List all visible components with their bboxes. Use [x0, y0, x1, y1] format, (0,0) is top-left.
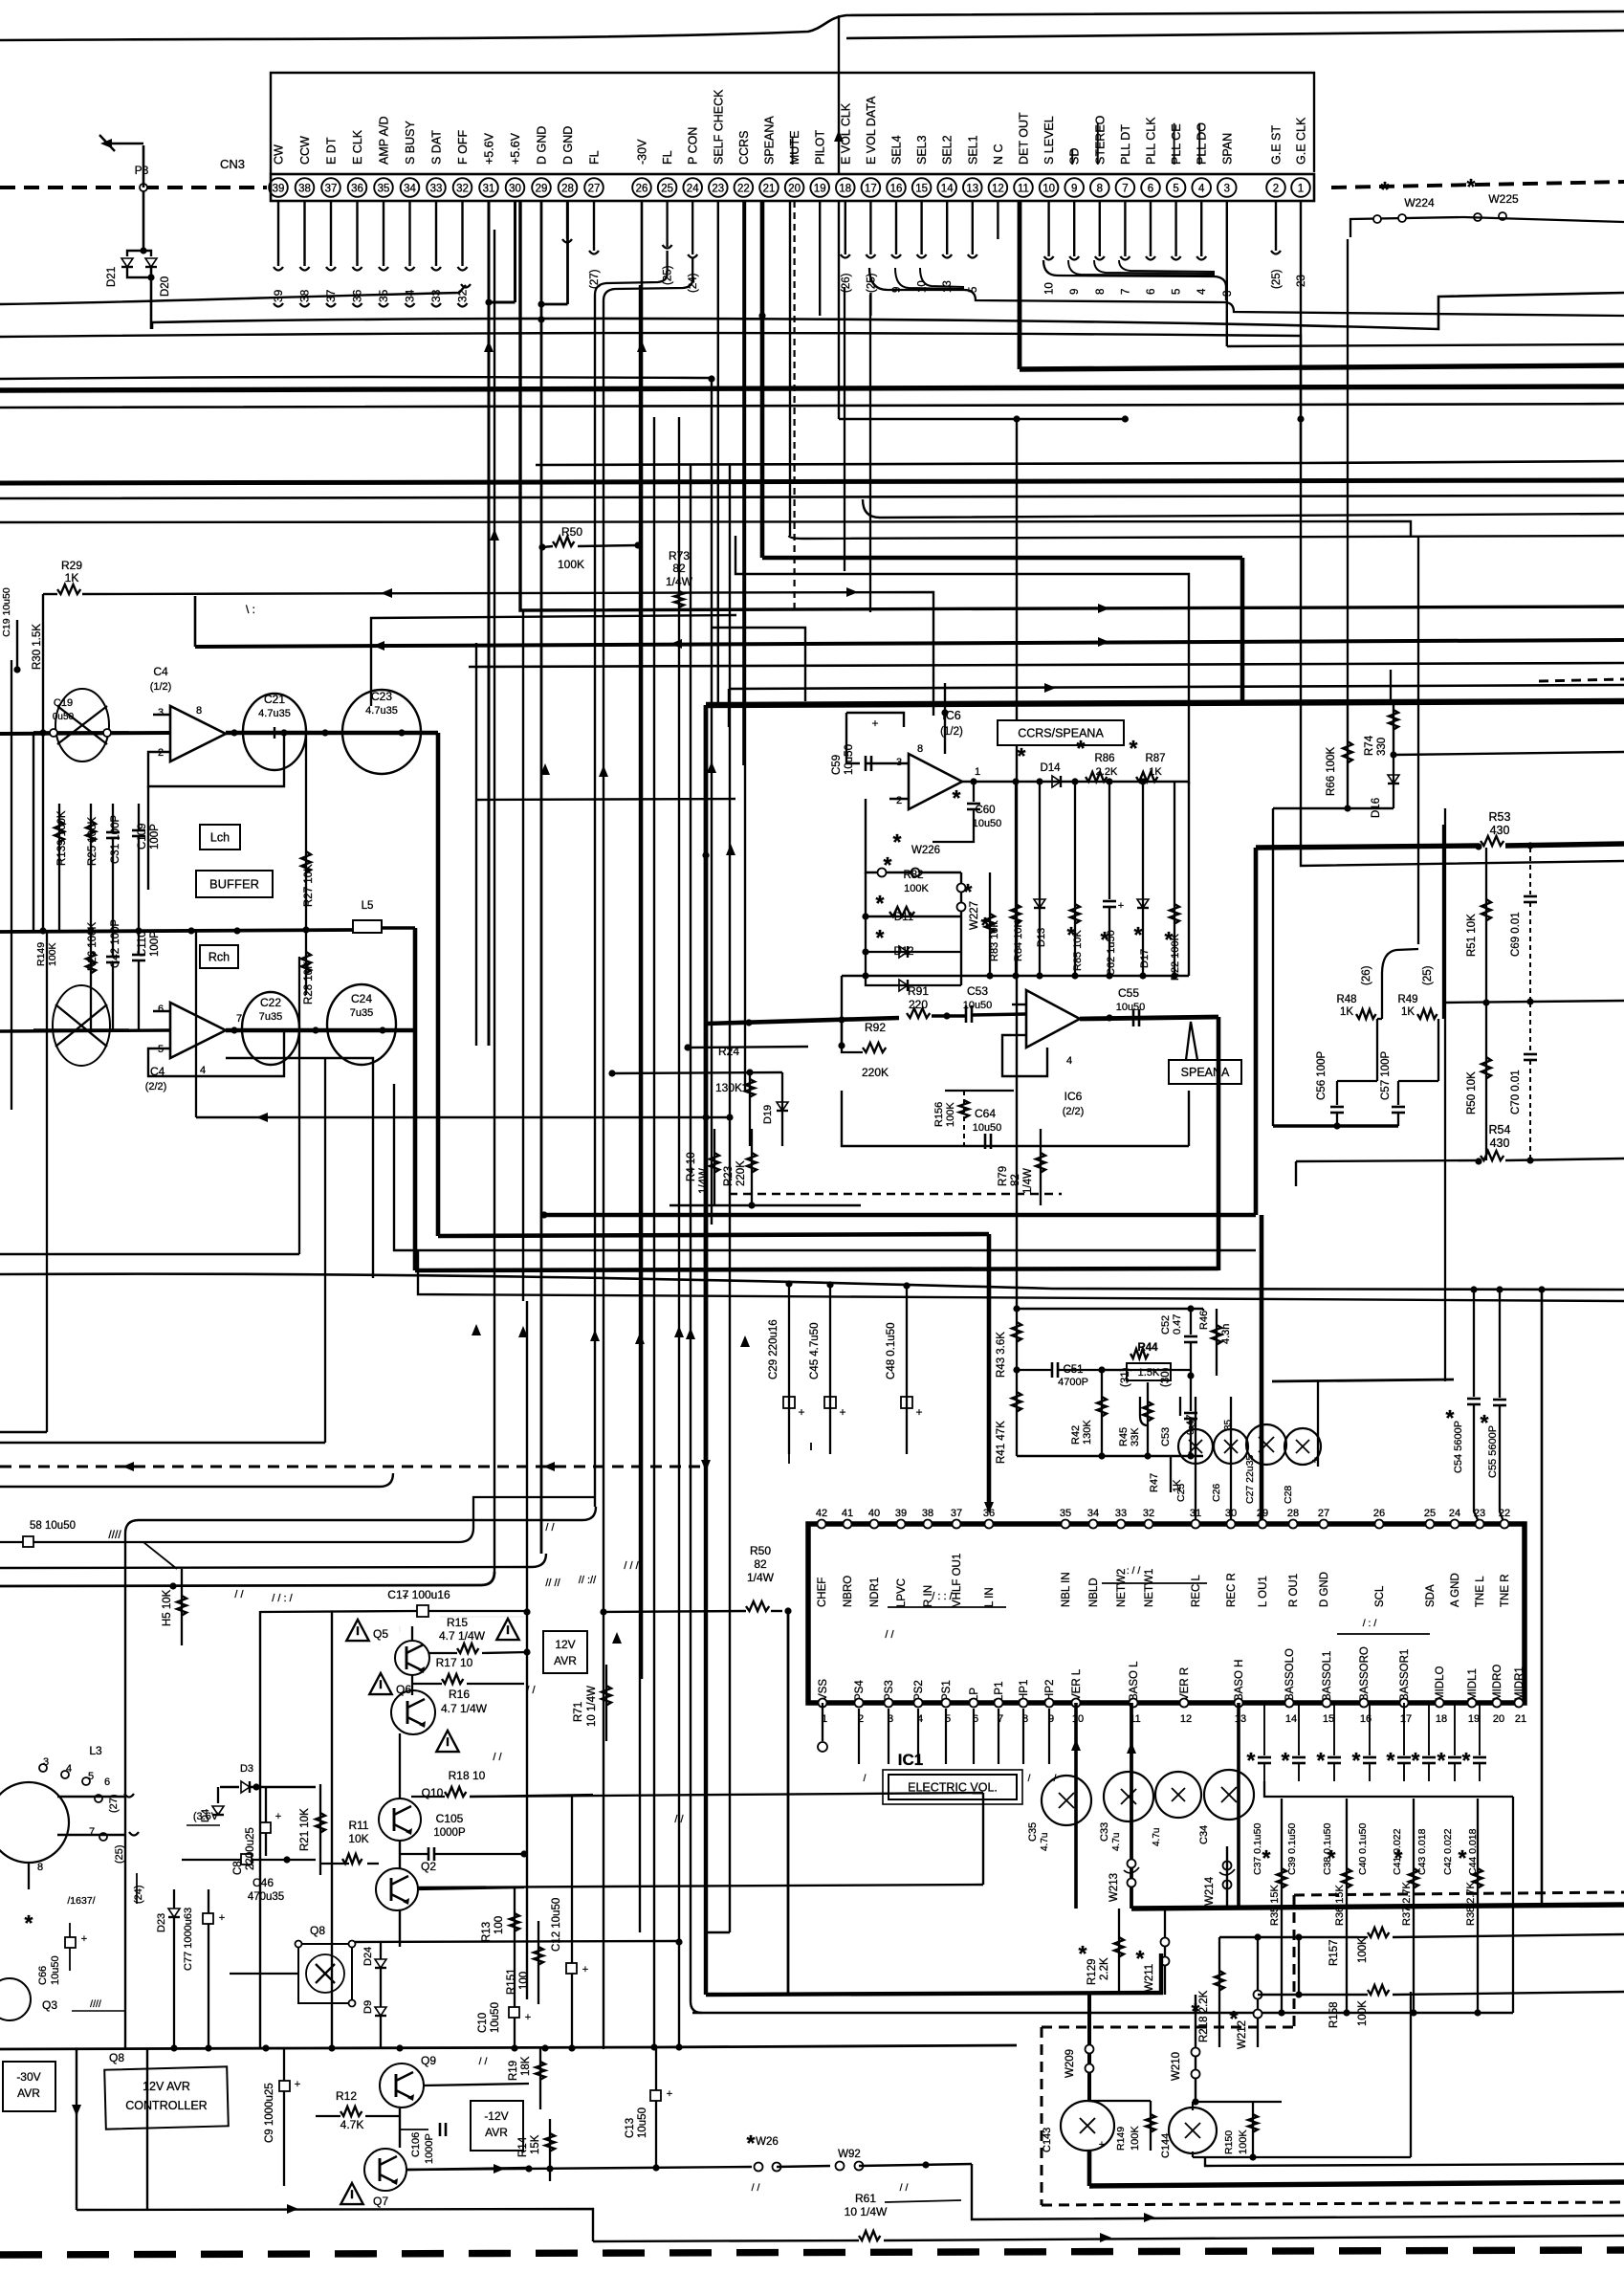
svg-text:-30V: -30V: [636, 139, 649, 165]
svg-text:(1/2): (1/2): [940, 726, 963, 738]
capacitor C4 bypass labels: [1, 587, 43, 673]
svg-text:MIDR1: MIDR1: [1514, 1666, 1525, 1701]
wire pin 6 stub: [1146, 201, 1157, 295]
pin 4 PLL DO: [1192, 122, 1211, 197]
label -12V AVR: [471, 2101, 523, 2151]
svg-text:BASO L: BASO L: [1129, 1661, 1140, 1701]
svg-text:AVR: AVR: [485, 2126, 508, 2139]
svg-text:*: *: [1018, 743, 1026, 768]
svg-text:(31): (31): [1120, 1367, 1131, 1387]
diode D16: [1371, 755, 1399, 818]
svg-text:10K: 10K: [348, 1832, 368, 1845]
wire pin 15 stub: [917, 201, 929, 293]
svg-text:4700P: 4700P: [1058, 1377, 1088, 1388]
wire left edge vertical: [11, 660, 12, 1110]
pin 27 FL: [584, 150, 604, 196]
wire: [1445, 1001, 1624, 1003]
pin 26 -30V: [632, 139, 651, 197]
capacitor C52 0.47: [1160, 1305, 1197, 1379]
wire vertical: [729, 465, 731, 1932]
svg-text:P CON: P CON: [687, 127, 700, 165]
capacitor C51 4700P: [1017, 1362, 1124, 1388]
capacitor C70 0.01: [1510, 1003, 1537, 1160]
capacitor C45 4.7u50: [809, 1281, 846, 1454]
svg-text:100K: 100K: [945, 1102, 956, 1127]
svg-text:82: 82: [754, 1557, 767, 1571]
svg-text:BASSOLO: BASSOLO: [1284, 1648, 1296, 1701]
svg-text:Q10: Q10: [422, 1786, 444, 1799]
IC1 pin 37 VHLF OU1: [951, 1508, 963, 1607]
svg-text:37: 37: [951, 1508, 962, 1519]
svg-text:4.7u35: 4.7u35: [365, 705, 398, 717]
wire CCRS block bottom: [842, 1091, 1189, 1146]
svg-text:S BUSY: S BUSY: [404, 120, 417, 165]
capacitor C105 1000P: [400, 1812, 528, 1861]
pin 37 E DT: [321, 137, 340, 197]
svg-text:36: 36: [983, 1508, 995, 1519]
svg-text:R50: R50: [750, 1544, 771, 1557]
svg-text:Rch: Rch: [208, 951, 230, 964]
svg-text:PLL DO: PLL DO: [1196, 122, 1209, 165]
svg-text:W213: W213: [1108, 1873, 1120, 1902]
resistor R12 4.7K: [316, 2089, 400, 2131]
svg-text:LPVC: LPVC: [896, 1578, 908, 1607]
transistor Q9: [380, 2054, 529, 2107]
svg-text:BASO H: BASO H: [1234, 1660, 1245, 1701]
svg-text:/: /: [864, 1774, 867, 1784]
wire thick vertical: [1240, 558, 1245, 705]
svg-text:MIDLO: MIDLO: [1435, 1666, 1446, 1701]
svg-text:13: 13: [1235, 1713, 1246, 1725]
IC1 pin 5 PS1: [941, 1680, 954, 1784]
svg-text:470u35: 470u35: [248, 1891, 284, 1903]
svg-text:4: 4: [1066, 1055, 1072, 1067]
svg-text:SCL: SCL: [1374, 1585, 1386, 1607]
svg-text:C52: C52: [1160, 1315, 1172, 1335]
svg-text:10 1/4W: 10 1/4W: [586, 1686, 598, 1727]
jumper W92: [836, 2149, 973, 2171]
wire pin 7 stub: [1120, 201, 1131, 295]
svg-text:16: 16: [890, 184, 903, 195]
svg-text:W212: W212: [1237, 2020, 1248, 2049]
svg-text:C39 0.1u50: C39 0.1u50: [1286, 1823, 1298, 1875]
capacitor C58 10u50: [0, 1497, 596, 1547]
capacitor C31 100P: [106, 804, 121, 931]
svg-text:C46: C46: [252, 1876, 274, 1889]
diode D4: [200, 1787, 224, 1822]
svg-text:100K: 100K: [1238, 2130, 1249, 2154]
svg-text:R49: R49: [1397, 994, 1417, 1005]
svg-text:R79: R79: [998, 1166, 1009, 1186]
svg-text:W211: W211: [1144, 1964, 1155, 1992]
wire route: [0, 1572, 494, 1590]
wire pin 4 stub: [1196, 201, 1208, 295]
svg-text:1/4W: 1/4W: [747, 1571, 775, 1584]
svg-text:7: 7: [1122, 184, 1128, 195]
svg-text:28: 28: [561, 184, 574, 195]
resistor R150 100K: [1193, 1992, 1411, 2161]
svg-text:15: 15: [1323, 1713, 1334, 1725]
svg-text:PS4: PS4: [854, 1680, 866, 1701]
svg-text:TNE R: TNE R: [1500, 1575, 1511, 1608]
svg-text:19: 19: [1468, 1713, 1480, 1725]
IC1 pin 27 D GND: [1318, 1508, 1330, 1607]
svg-text:C105: C105: [436, 1812, 464, 1825]
svg-text:31: 31: [1190, 1508, 1201, 1519]
svg-text:18: 18: [1436, 1713, 1447, 1725]
svg-text:30: 30: [1225, 1508, 1237, 1519]
resistor R139 100K: [55, 804, 68, 931]
svg-text:VER R: VER R: [1179, 1667, 1191, 1701]
svg-text:34: 34: [404, 289, 417, 302]
transistor Q6: [369, 1673, 487, 1734]
svg-text:C28: C28: [1283, 1486, 1294, 1504]
svg-text:R54: R54: [1489, 1123, 1511, 1136]
svg-text:8: 8: [196, 705, 202, 717]
wire: [1016, 419, 1018, 1309]
label (26): [1361, 949, 1418, 1019]
wire riser: [194, 596, 197, 647]
IC1 pin 14 BASSOLO: [1284, 1648, 1297, 1725]
label -30V AVR: [3, 2062, 55, 2111]
svg-text:C69 0.01: C69 0.01: [1510, 912, 1522, 957]
capacitor C29 220u16: [768, 1280, 805, 1454]
svg-text:CONTROLLER: CONTROLLER: [125, 2099, 207, 2112]
wire: [394, 1084, 1256, 1250]
svg-text:D14: D14: [1040, 762, 1061, 774]
wire vertical: [594, 295, 596, 1507]
svg-text:CCRS: CCRS: [737, 131, 751, 165]
svg-text:1000P: 1000P: [424, 2133, 435, 2164]
transistor Q2L: [33, 985, 129, 1066]
svg-text:4.7K: 4.7K: [340, 2118, 364, 2131]
wire vertical: [566, 201, 568, 239]
wire: [33, 733, 34, 931]
svg-text:+: +: [582, 1964, 588, 1975]
wire Rch input: [0, 1030, 170, 1031]
svg-text:+: +: [915, 1405, 922, 1419]
svg-text:A GND: A GND: [1450, 1573, 1461, 1607]
svg-text:+: +: [798, 1405, 804, 1419]
wire -30V net: [637, 201, 647, 1679]
svg-text:NBLD: NBLD: [1088, 1578, 1100, 1607]
svg-text:NBRO: NBRO: [843, 1576, 854, 1607]
jumper W210: [1171, 1995, 1200, 2106]
wire branch: [712, 628, 805, 701]
svg-text:(25): (25): [114, 1844, 125, 1864]
svg-text:CW: CW: [273, 144, 286, 165]
wire: [470, 1793, 983, 1797]
wire: [972, 2164, 1624, 2219]
resistor R50 100K: [538, 525, 641, 571]
svg-text:*: *: [1459, 1845, 1467, 1870]
wire tone rails: [1017, 1309, 1203, 1460]
svg-text:40: 40: [868, 1508, 880, 1519]
capacitor C77 1000u63: [183, 1889, 225, 2047]
diode D11: [866, 891, 961, 958]
wire bus: [469, 663, 1624, 667]
resistor R19 18K: [508, 2047, 545, 2109]
svg-text:C53: C53: [967, 984, 988, 998]
svg-text:10u50: 10u50: [973, 818, 1002, 829]
svg-text:BASSOL1: BASSOL1: [1322, 1651, 1333, 1701]
svg-text:21: 21: [1515, 1713, 1526, 1725]
svg-text:/: /: [1028, 1774, 1031, 1784]
IC1 pin 20 MIDRO: [1492, 1665, 1504, 1725]
svg-text:26: 26: [1373, 1508, 1385, 1519]
op-amp IC6 2/2: [1012, 990, 1084, 1117]
wire bus: [0, 496, 1624, 498]
svg-text:////: ////: [108, 1528, 121, 1541]
svg-text:C35: C35: [1027, 1822, 1039, 1842]
svg-text:D20: D20: [160, 276, 171, 297]
svg-text:E DT: E DT: [325, 137, 339, 165]
wire bus: [0, 404, 1624, 408]
wire: [706, 1931, 730, 1933]
resistor R25 100K: [86, 804, 99, 931]
pin 20 MUTE: [785, 131, 804, 197]
svg-text:5: 5: [1173, 184, 1178, 195]
resistor R84 10K: [1011, 778, 1024, 976]
pin 19 PILOT: [810, 130, 829, 197]
wire Q10 collector: [399, 1626, 401, 1632]
svg-text:// ://: // ://: [579, 1575, 597, 1586]
resistor R36 15K: [1328, 1799, 1351, 2017]
svg-text:VER L: VER L: [1071, 1668, 1083, 1701]
svg-text:R157: R157: [1328, 1940, 1340, 1967]
IC1 pin 29 L OU1: [1257, 1508, 1269, 1607]
svg-text:10 1/4W: 10 1/4W: [845, 2205, 888, 2218]
wire CCRS: [742, 201, 744, 765]
svg-text:35: 35: [1223, 1419, 1234, 1430]
capacitor C24 4.7u35: [327, 984, 396, 1065]
wire D GND net: [538, 201, 567, 1554]
svg-text:D13: D13: [1036, 928, 1047, 947]
svg-text:C66: C66: [37, 1966, 49, 1985]
wire: [143, 251, 151, 256]
svg-text:10u50: 10u50: [50, 1955, 61, 1985]
wire: [1317, 1381, 1319, 1467]
svg-text:C62 1u50: C62 1u50: [1106, 930, 1117, 976]
label SPEANA: [1169, 1022, 1241, 1084]
capacitor C46 470u35: [182, 1854, 316, 1903]
svg-text:*: *: [747, 2130, 756, 2155]
resistor R15 4.7 1/4W: [429, 1616, 531, 1656]
wire pin 39 stub: [272, 201, 285, 307]
resistor R48 1K: [1336, 994, 1382, 1081]
capacitor C42 100P: [106, 919, 121, 1030]
svg-text:S DAT: S DAT: [430, 130, 444, 165]
resistor R21 10K: [299, 1784, 325, 1875]
IC1 pin 7 LP1: [994, 1682, 1006, 1784]
svg-text:3: 3: [158, 707, 164, 718]
svg-text:6: 6: [104, 1776, 110, 1788]
wire pin18 riser: [844, 287, 845, 571]
resistor R42 130K: [1070, 1366, 1107, 1456]
resistor R149 100K: [1089, 2101, 1155, 2151]
wire vertical: [1016, 1524, 1018, 1526]
wire pin 14 stub: [942, 201, 954, 293]
diode D19: [762, 1072, 788, 1146]
svg-text:PLL CLK: PLL CLK: [1145, 117, 1158, 165]
svg-text:CCW: CCW: [298, 136, 312, 165]
svg-text:38: 38: [922, 1508, 933, 1519]
svg-text:MIDRO: MIDRO: [1492, 1665, 1503, 1701]
svg-text:Q7: Q7: [373, 2195, 388, 2208]
pin 10 S LEVEL: [1040, 116, 1059, 197]
resistor R44 1.5K: [1127, 1342, 1171, 1380]
diode D9: [362, 1968, 386, 2047]
svg-text:430: 430: [1490, 824, 1510, 837]
pin 15 SEL3: [912, 135, 932, 196]
IC IC1 ELECTRIC VOL body: [808, 1524, 1525, 1703]
svg-text:10u50: 10u50: [490, 2002, 501, 2033]
svg-text:28: 28: [1287, 1508, 1299, 1519]
pin 2 G.E ST: [1266, 125, 1285, 197]
resistor R26 100K: [86, 922, 99, 1030]
wire DET OUT thick: [1020, 201, 1624, 369]
capacitor C22 4.7u35: [242, 992, 299, 1065]
resistor H5 10K: [162, 1569, 187, 1645]
svg-text:(25): (25): [1422, 965, 1434, 985]
resistor R4 10 1/4W: [686, 1129, 719, 1205]
resistor R73 82 1/4W: [666, 549, 693, 588]
svg-text:R19: R19: [508, 2061, 519, 2081]
svg-text:0.47: 0.47: [1172, 1314, 1183, 1335]
svg-text:5: 5: [1172, 289, 1183, 295]
svg-text:8: 8: [1095, 289, 1107, 295]
wire pin 3 SPAN route: [1222, 201, 1624, 346]
svg-text:*: *: [1077, 736, 1086, 761]
svg-text:W92: W92: [838, 2149, 861, 2160]
svg-text:/ /: / /: [900, 2182, 909, 2194]
jumper W211: [1136, 1909, 1170, 1995]
svg-text:R149: R149: [35, 942, 47, 966]
svg-text:29: 29: [1257, 1508, 1268, 1519]
IC1 pin 22 TNE R: [1499, 1508, 1511, 1607]
svg-text:R16: R16: [449, 1688, 470, 1701]
svg-text:/ /: / /: [234, 1589, 244, 1600]
jumper W225: [1463, 174, 1624, 222]
resistor R85 10K: [1067, 778, 1084, 976]
svg-text:1: 1: [1298, 184, 1304, 195]
svg-text:25: 25: [1424, 1508, 1436, 1519]
wire: [352, 1941, 679, 1942]
svg-text:D GND: D GND: [561, 126, 575, 165]
svg-text:18: 18: [839, 184, 851, 195]
svg-text:R53: R53: [1489, 810, 1511, 824]
svg-text:(25): (25): [1271, 269, 1283, 289]
wire: [418, 1885, 983, 1887]
wire pin 18 stub: [841, 201, 852, 293]
svg-text:R48: R48: [1336, 994, 1356, 1005]
boundary dashed: [1042, 1892, 1624, 2205]
IC1 pin 36 L IN: [983, 1508, 996, 1607]
resistor R22 100K: [1165, 782, 1181, 981]
wire pin 17 stub: [866, 201, 877, 293]
wire R IN thick: [415, 1269, 1218, 1270]
svg-text:26: 26: [636, 184, 648, 195]
svg-text:20: 20: [788, 184, 801, 195]
pin 28 D GND: [559, 126, 578, 197]
capacitor C54 5600P: [1446, 1286, 1481, 1524]
wire: [399, 1910, 401, 1947]
label (30): [1160, 1367, 1180, 1416]
wire: [846, 31, 1624, 38]
wire vertical: [494, 230, 495, 1572]
svg-text:C12 10u50: C12 10u50: [551, 1898, 562, 1952]
wire pin 17 route: [869, 293, 871, 316]
svg-text:*: *: [1412, 1748, 1420, 1773]
pin 7 PLL DT: [1116, 124, 1135, 197]
resistor R86 2.2K: [1077, 736, 1118, 782]
svg-text:D3: D3: [240, 1763, 253, 1775]
pin 18 E VOL CLK: [836, 102, 855, 197]
svg-text:1000P: 1000P: [433, 1827, 466, 1839]
svg-text:9: 9: [1071, 184, 1077, 195]
resistor R73 82 zigzag: [674, 591, 684, 607]
svg-text:(26): (26): [841, 273, 852, 293]
resistor R151 100: [506, 1921, 543, 2004]
wire thick: [544, 1213, 1256, 1218]
capacitor C44: [1462, 1703, 1486, 1875]
svg-text:2: 2: [1273, 184, 1279, 195]
svg-text:37: 37: [325, 184, 338, 195]
wire Lch output thick: [226, 729, 438, 736]
svg-text:CCRS/SPEANA: CCRS/SPEANA: [1018, 727, 1104, 740]
svg-text:C4: C4: [153, 665, 168, 678]
svg-text:+5.6V: +5.6V: [509, 132, 522, 165]
svg-text:/ : /: / : /: [1363, 1618, 1377, 1629]
svg-text:15: 15: [915, 184, 928, 195]
svg-text:REC R: REC R: [1226, 1573, 1238, 1607]
svg-text:33: 33: [429, 289, 443, 302]
svg-text:SPAN: SPAN: [1220, 133, 1234, 165]
transistor Q8 opto: [230, 1924, 356, 2007]
svg-text:C45 4.7u50: C45 4.7u50: [809, 1323, 821, 1379]
wire: [0, 11, 1624, 40]
IC1 pin 31 REC L: [1190, 1508, 1202, 1607]
svg-text:W26: W26: [756, 2136, 779, 2148]
IC1 pin 33 NETW2: [1115, 1508, 1128, 1607]
svg-text:Q3: Q3: [42, 1998, 57, 2012]
jumper W226: [866, 799, 961, 877]
capacitor C48 0.1u50: [886, 1282, 923, 1454]
pin 34 S BUSY: [401, 120, 420, 196]
resistor R35 15K: [1262, 1799, 1286, 2017]
wire bus: [536, 461, 1624, 465]
svg-text:8: 8: [37, 1862, 43, 1873]
wire bus: [0, 377, 712, 379]
svg-text:D9: D9: [362, 2000, 374, 2014]
IC1 pin 6 LP: [969, 1688, 981, 1784]
pin 14 SEL2: [937, 135, 956, 196]
svg-text:+: +: [667, 2088, 672, 2100]
wire pin 9 stub: [1069, 201, 1081, 295]
svg-text:4: 4: [1198, 184, 1205, 195]
pin 39 CW: [269, 144, 288, 197]
pin 21 SPEANA: [759, 116, 779, 197]
label CCRS/SPEANA: [998, 720, 1124, 745]
svg-text:*: *: [1247, 1748, 1256, 1773]
label Lch: [200, 825, 240, 850]
svg-text:7u35: 7u35: [259, 1011, 282, 1023]
svg-text:*: *: [1262, 1845, 1271, 1870]
svg-text:12: 12: [1180, 1713, 1192, 1725]
wire vertical: [639, 285, 641, 1932]
svg-text:(27): (27): [108, 1794, 120, 1813]
pin 22 CCRS: [735, 131, 754, 197]
